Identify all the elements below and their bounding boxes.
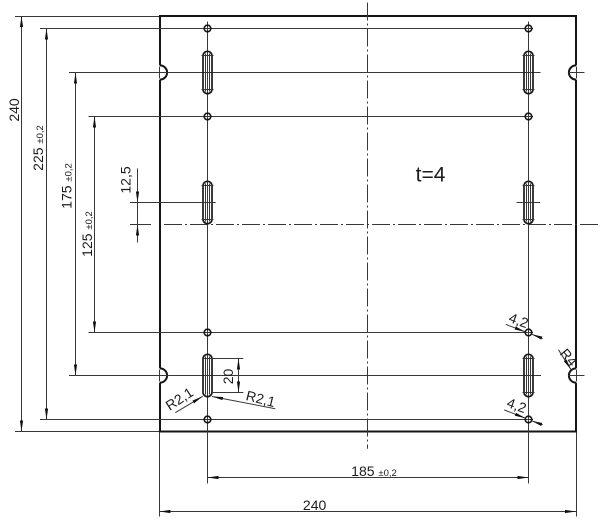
- extension line row C (125 top): [89, 116, 534, 118]
- slot S1 inner left line: [205, 54, 207, 92]
- notch right top center tick horizontal: [569, 72, 585, 74]
- dimension 12.5 arrow upper (pointing down to slot axis): [137, 192, 139, 203]
- plate outline left edge middle segment: [159, 80, 161, 369]
- slot S2 inner left line: [526, 54, 528, 92]
- slot S3 arc tick bottom: [202, 219, 214, 221]
- slot S4 arc tick bottom: [523, 219, 535, 221]
- notch right top center tick vertical: [576, 67, 578, 79]
- hole H8 bottom right 4.2: [525, 416, 532, 423]
- hole H4 row C right: [525, 113, 532, 120]
- slot S5 inner left line: [205, 357, 207, 395]
- hole column axis left: [207, 22, 209, 484]
- extension line row E (125 bottom): [89, 332, 534, 334]
- slot S6 inner right line: [530, 357, 532, 395]
- leader R4: [559, 350, 572, 370]
- slot S4 inner left line: [526, 184, 528, 222]
- notch right bottom center tick horizontal: [568, 375, 585, 377]
- notch right bottom center tick vertical: [576, 370, 578, 382]
- dimension 125 line: [94, 117, 96, 333]
- slot S4 middle right outer: [524, 181, 533, 223]
- slot S2 inner right line: [530, 54, 532, 92]
- slot S5 inner right line: [209, 357, 211, 395]
- slot S2 top right outer: [524, 51, 533, 93]
- notch R4 left bottom: [160, 368, 167, 382]
- slot S3 inner left line: [205, 184, 207, 222]
- plate outline bottom edge: [159, 431, 577, 433]
- extension line row F (175 bottom): [69, 375, 541, 377]
- slot S2 arc tick bottom: [523, 89, 535, 91]
- centerline horizontal dash-dot: [164, 224, 600, 226]
- svg-text:20: 20: [220, 369, 236, 385]
- centerline vertical dash-dot: [367, 3, 369, 449]
- svg-text:R2,1: R2,1: [163, 384, 197, 414]
- dimension 240 left line: [21, 16, 23, 432]
- leader 4.2 upper far side: [532, 334, 543, 338]
- notch left top center tick: [159, 67, 161, 79]
- dimension 12.5 line: [137, 169, 139, 243]
- slot S4 center line: [517, 202, 541, 204]
- dimension 20 line: [238, 359, 240, 393]
- plate outline right edge lower segment: [575, 383, 577, 433]
- hole H3 row C left: [204, 113, 211, 120]
- svg-text:12,5: 12,5: [118, 166, 134, 193]
- plate outline top edge: [159, 15, 577, 17]
- slot S2 arc tick top: [523, 55, 535, 57]
- hole column axis right: [528, 22, 530, 484]
- svg-text:4,2: 4,2: [505, 394, 529, 416]
- slot S5 arc tick bottom / 20 dim extension bottom: [212, 392, 243, 394]
- slot S3 middle left outer: [203, 181, 212, 223]
- dimension 225 line: [46, 29, 48, 420]
- slot S6 arc tick top: [523, 358, 535, 360]
- plate outline right edge middle segment: [575, 80, 577, 369]
- leader 4.2 upper tail: [506, 324, 526, 332]
- svg-text:4,2: 4,2: [507, 309, 531, 331]
- dimension 240 bottom line: [159, 511, 576, 513]
- leader R2.1 left: [175, 396, 202, 412]
- dimension 12.5 arrow lower (pointing up to centerline): [137, 225, 139, 236]
- slot S1 arc tick bottom: [202, 89, 214, 91]
- svg-text:R2,1: R2,1: [244, 387, 277, 410]
- slot S3 center line / 12.5 upper extension: [130, 202, 216, 204]
- notch R4 right top: [569, 65, 576, 79]
- slot S1 arc tick top: [202, 55, 214, 57]
- hole H5 row E left: [204, 329, 211, 336]
- plate outline left edge lower segment: [159, 383, 161, 433]
- leader 4.2 lower far side: [531, 421, 542, 425]
- slot S3 inner right line: [209, 184, 211, 222]
- slot S5 arc tick top / 20 dim extension top: [202, 358, 243, 360]
- extension line below plate left: [159, 433, 161, 517]
- extension line row A (225 top): [40, 28, 533, 30]
- svg-text:240: 240: [6, 98, 22, 122]
- svg-text:t=4: t=4: [416, 164, 446, 187]
- notch R4 left top: [160, 65, 167, 79]
- hole H1 top left: [204, 25, 211, 32]
- notch R4 right bottom: [569, 368, 576, 382]
- hole H7 bottom left: [204, 416, 211, 423]
- dimension 185 line: [208, 477, 529, 479]
- svg-text:185 ±0,2: 185 ±0,2: [351, 463, 397, 479]
- svg-text:225 ±0,2: 225 ±0,2: [30, 125, 46, 171]
- slot S4 inner right line: [530, 184, 532, 222]
- slot S6 inner left line: [526, 357, 528, 395]
- hole H6 row E right 4.2: [525, 329, 532, 336]
- plate outline right edge upper segment: [575, 15, 577, 65]
- extension line below plate right: [576, 433, 578, 517]
- slot S6 arc tick bottom: [523, 392, 535, 394]
- slot S1 top left outer: [203, 51, 212, 93]
- extension line row G (225 bottom): [40, 419, 533, 421]
- slot S6 bottom right outer: [524, 354, 533, 396]
- svg-text:125 ±0,2: 125 ±0,2: [79, 211, 95, 257]
- extension line plate top left: [15, 16, 159, 18]
- svg-text:240: 240: [303, 497, 327, 513]
- dimension 12.5 lower extension tick: [130, 224, 151, 226]
- slot S3 arc tick top: [202, 185, 214, 187]
- slot S5 bottom left outer: [203, 354, 212, 396]
- slot S1 inner right line: [209, 54, 211, 92]
- svg-text:175 ±0,2: 175 ±0,2: [59, 163, 75, 209]
- plate outline left edge upper segment: [159, 15, 161, 65]
- extension line plate bottom left: [15, 431, 159, 433]
- svg-text:R4: R4: [557, 345, 581, 369]
- hole H2 top right: [525, 25, 532, 32]
- extension line row B (175 top): [69, 72, 541, 74]
- leader R2.1 right: [212, 397, 275, 409]
- notch left bottom center tick: [159, 370, 161, 382]
- leader 4.2 lower tail: [504, 410, 525, 418]
- dimension 175 line: [75, 73, 77, 376]
- slot S4 arc tick top: [523, 185, 535, 187]
